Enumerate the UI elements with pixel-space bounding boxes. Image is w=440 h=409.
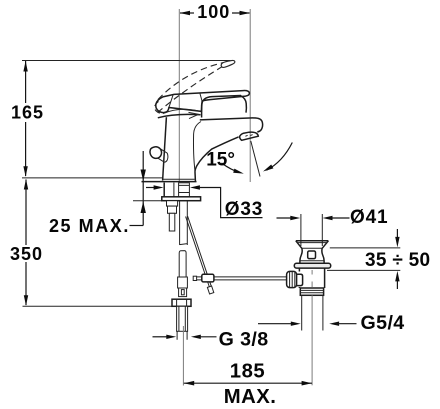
faucet: main shank upper section	[180, 201, 188, 245]
drain: overflow window	[308, 251, 316, 259]
pop-up rod left end cap	[193, 276, 196, 280]
svg-text:165: 165	[11, 103, 44, 123]
drain: neck and upper body	[300, 248, 324, 263]
dimension 35-50: top reference line	[330, 247, 401, 249]
dimension 350: bottom reference line (y=306.3)	[23, 305, 172, 307]
faucet: mounting stud lower rod	[169, 213, 175, 231]
dimension G3/8: dimension line with arrows	[153, 335, 217, 339]
dimension 35-50: lower arrow	[395, 271, 399, 289]
drain: knurled pivot knob	[287, 271, 303, 287]
faucet: lever crease right	[200, 93, 202, 101]
dimension 185 MAX: left extension line (faucet centerline)	[182, 326, 184, 386]
dimension 25 MAX: upper arrow (down)	[141, 170, 146, 182]
faucet: shank threaded block	[179, 183, 190, 197]
faucet: lever crease left	[169, 95, 173, 108]
pop-up rod (slanted)	[186, 216, 212, 288]
faucet: aerator (15-deg nozzle)	[240, 132, 259, 140]
dimension O33: dimension line with inward arrows and leader	[146, 185, 263, 217]
faucet: fixing nut upper	[167, 201, 178, 206]
dimension 100: extension line left (x=179)	[178, 9, 180, 182]
faucet: supply nut (hex)	[172, 299, 191, 306]
dimension 35-50: upper arrow	[395, 229, 399, 247]
drain: tail pipe	[302, 295, 323, 330]
15-deg: right arc with arrow	[263, 143, 292, 172]
dimension 35-50: bottom reference line	[327, 269, 400, 271]
15-deg: slanted axis line	[251, 141, 260, 177]
dimension 100: dimension line and arrows	[180, 11, 250, 16]
dimension 25 MAX: leader shaft	[142, 151, 144, 226]
pop-up rod lower tip	[207, 286, 213, 294]
dimension 25 MAX: lower arrow (up)	[141, 202, 146, 214]
drain: washer flange	[294, 263, 330, 268]
faucet: dome left junction	[189, 112, 199, 118]
svg-text:G 3/8: G 3/8	[219, 328, 269, 350]
dimension O41: extension lines	[301, 214, 322, 246]
drain: centerline to 185 dimension	[311, 295, 313, 385]
faucet: dome top arc	[163, 109, 199, 113]
faucet: spout top edge	[200, 118, 250, 120]
faucet: fixing nut lower	[168, 206, 177, 213]
faucet: pop-up knob on body	[150, 147, 168, 163]
faucet: spout underside sweep into body	[195, 137, 239, 181]
dimension 185 MAX: dimension line with arrows	[184, 381, 312, 386]
faucet: body front-left contour	[193, 122, 201, 173]
svg-text:25 MAX.: 25 MAX.	[49, 216, 130, 236]
svg-text:350: 350	[10, 244, 43, 264]
faucet: spout body rounded corner	[202, 96, 241, 118]
svg-text:Ø33: Ø33	[225, 199, 263, 220]
faucet: base plate thick line	[142, 181, 197, 183]
faucet: deck flange plate	[162, 197, 201, 201]
dimension O41: dimension line with arrows	[277, 216, 350, 220]
faucet: shank outer wall left	[163, 183, 165, 197]
faucet: shank adapter box	[179, 288, 187, 297]
drain: centerline dashes in body	[311, 270, 313, 287]
faucet: dome right shoulder arc	[241, 96, 247, 113]
faucet: shank joint widening	[178, 277, 188, 288]
svg-text:100: 100	[197, 2, 230, 22]
faucet: main shank lower section with top cap	[179, 251, 186, 277]
pop-up horizontal linkage rod	[194, 277, 288, 280]
svg-text:Ø41: Ø41	[350, 207, 388, 228]
svg-text:15°: 15°	[206, 149, 235, 170]
dimension 25 MAX: stub to text	[130, 225, 144, 227]
dimension 100: extension line right / 15-deg reference vertical (x=250)	[249, 9, 251, 182]
faucet: aerator mesh ticks	[245, 135, 252, 137]
dimension 25 MAX: flange-bottom level stub	[133, 200, 162, 202]
15-deg: left arc with arrow	[222, 163, 244, 174]
faucet: solid lever (handle) outline	[156, 91, 250, 113]
dimension 165: bottom reference line (y=177.9)	[22, 177, 162, 179]
faucet: base upper line	[163, 178, 195, 180]
faucet: shank inner tube line	[173, 183, 175, 197]
drain: thread band	[300, 288, 323, 295]
faucet: G3/8 threaded tail pipe	[177, 306, 188, 340]
pop-up rod clamp block	[202, 274, 214, 282]
drain: lower body	[299, 268, 324, 288]
faucet: cartridge dome shadow joint	[158, 114, 201, 117]
svg-text:MAX.: MAX.	[224, 386, 277, 408]
dimension 165: top reference line (y=60.5)	[22, 60, 231, 62]
faucet: body left edge	[163, 117, 167, 180]
svg-text:185: 185	[230, 360, 265, 382]
svg-text:35 ÷ 50: 35 ÷ 50	[365, 250, 430, 271]
faucet: dashed raised lever outline	[155, 60, 235, 113]
faucet: spout end cap	[250, 118, 263, 132]
drain: pop-up waste rim	[296, 241, 329, 249]
drain: upper body bottom edge	[300, 260, 323, 262]
dimension 165: dimension line with arrows	[23, 61, 27, 177]
svg-text:G5/4: G5/4	[361, 312, 405, 334]
dimension 350: dimension line with arrows	[24, 179, 28, 306]
dimension G5/4: dimension line with arrows	[258, 322, 357, 326]
